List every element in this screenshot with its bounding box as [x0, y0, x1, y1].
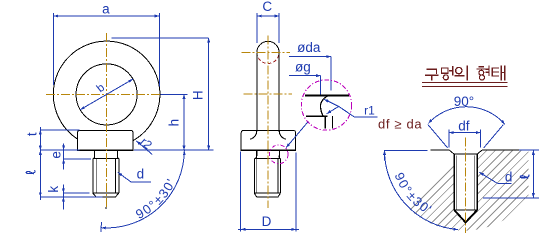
svg-text:d: d	[505, 169, 513, 184]
svg-text:H: H	[191, 90, 206, 100]
svg-text:k: k	[46, 186, 61, 193]
svg-text:t: t	[25, 132, 40, 136]
svg-text:øg: øg	[295, 59, 311, 74]
svg-text:d: d	[137, 166, 145, 181]
svg-text:C: C	[262, 0, 272, 14]
svg-text:r1: r1	[364, 104, 375, 118]
svg-text:a: a	[102, 2, 110, 17]
svg-text:h: h	[167, 119, 182, 127]
svg-text:df: df	[458, 118, 470, 133]
svg-text:df ≥ da: df ≥ da	[378, 117, 422, 132]
svg-text:D: D	[262, 214, 272, 229]
svg-text:e: e	[49, 151, 64, 159]
svg-text:90°: 90°	[454, 94, 474, 109]
svg-text:øda: øda	[297, 40, 321, 55]
